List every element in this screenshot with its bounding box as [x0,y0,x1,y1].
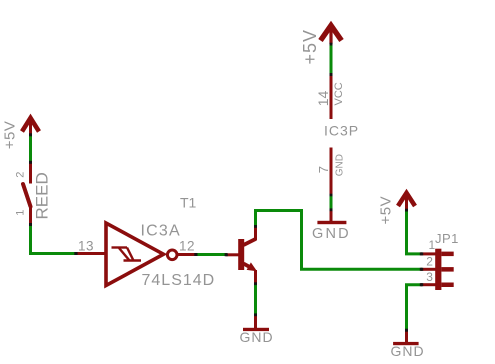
svg-text:VCC: VCC [333,82,345,105]
svg-text:+5V: +5V [2,121,19,150]
svg-text:JP1: JP1 [435,231,459,246]
svg-text:1: 1 [15,210,27,216]
svg-text:GND: GND [391,343,425,359]
svg-text:3: 3 [426,270,433,284]
svg-text:74LS14D: 74LS14D [142,272,216,289]
svg-text:IC3A: IC3A [141,223,181,240]
svg-text:GND: GND [240,329,274,345]
svg-text:REED: REED [33,172,52,219]
svg-text:2: 2 [426,255,433,269]
svg-text:7: 7 [316,166,331,173]
svg-text:2: 2 [15,172,27,178]
svg-text:+5V: +5V [300,29,320,65]
svg-text:IC3P: IC3P [324,122,359,138]
svg-text:GND: GND [312,226,351,242]
svg-text:13: 13 [78,239,94,254]
svg-text:T1: T1 [180,195,197,211]
svg-text:1: 1 [429,238,436,252]
svg-text:12: 12 [179,239,195,254]
svg-text:+5V: +5V [378,196,395,225]
svg-text:GND: GND [334,154,345,176]
svg-text:14: 14 [315,91,331,107]
